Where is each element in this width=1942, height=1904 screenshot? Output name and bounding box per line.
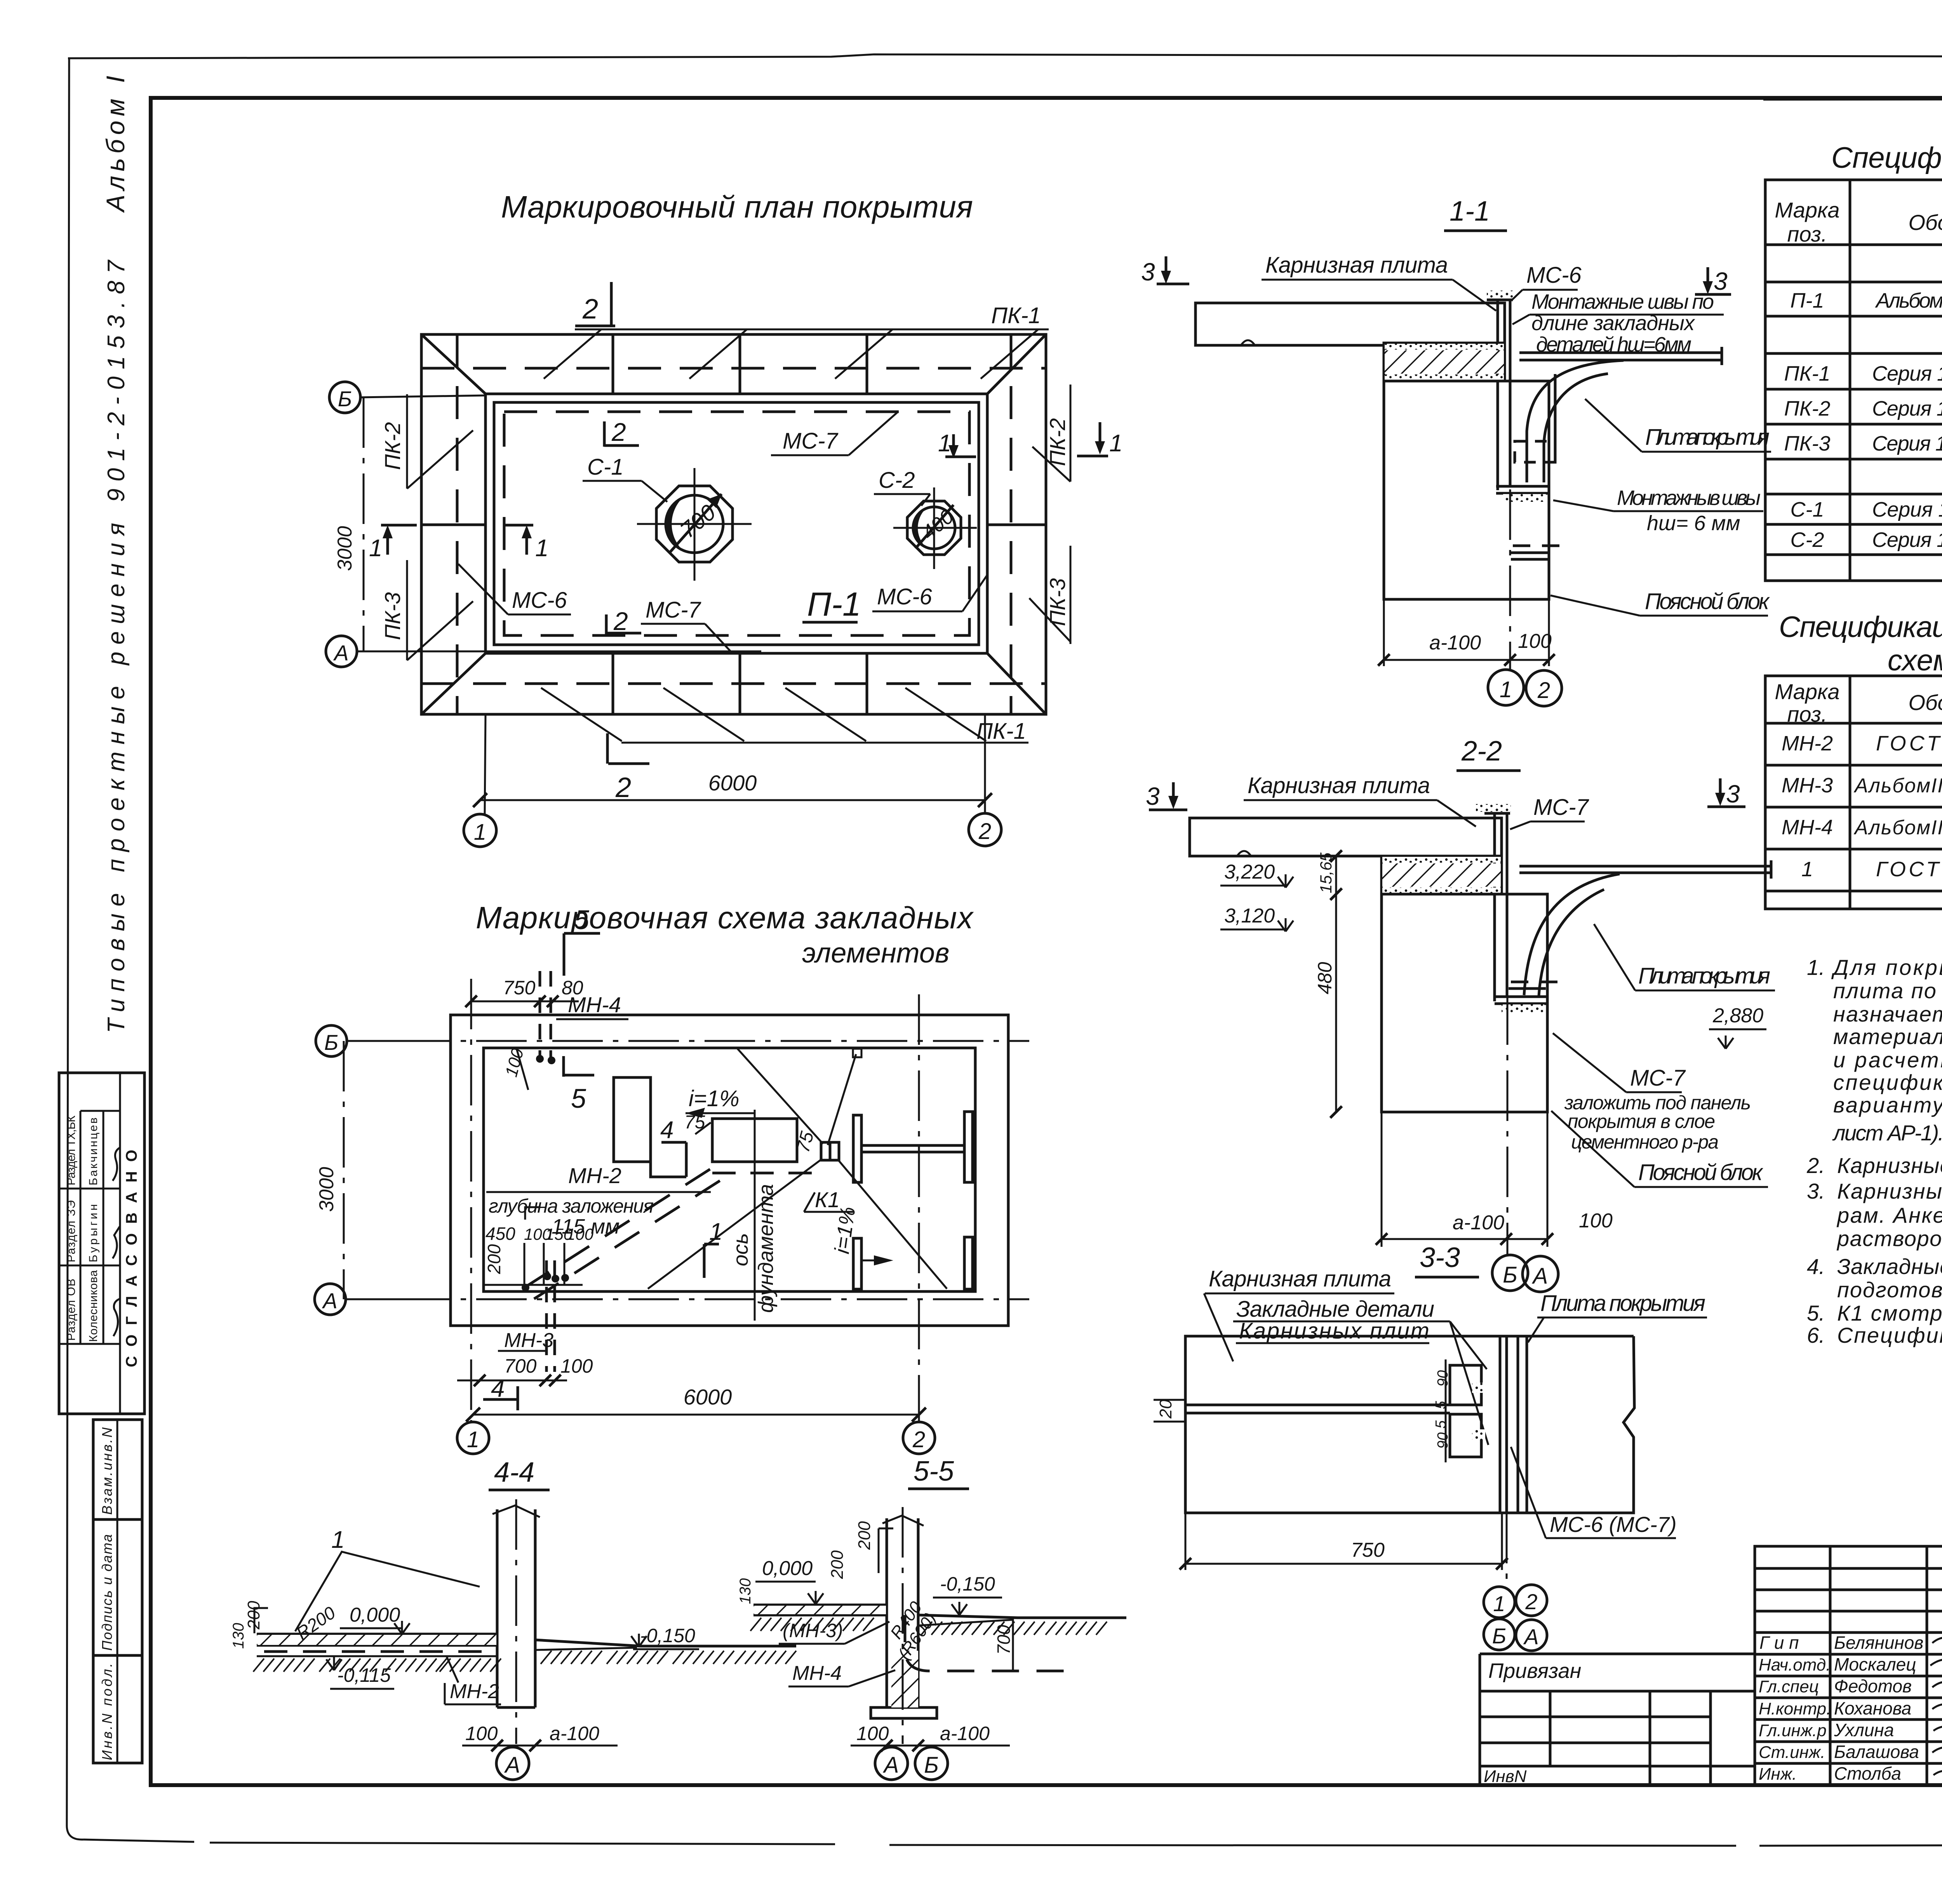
svg-text:3: 3 bbox=[1146, 782, 1160, 810]
svg-text:МС-7: МС-7 bbox=[1630, 1065, 1686, 1091]
svg-text:3: 3 bbox=[1714, 267, 1728, 295]
scheme inner wall rect bbox=[484, 1048, 975, 1291]
svg-text:hш= 6 мм: hш= 6 мм bbox=[1647, 512, 1740, 535]
svg-text:5-5: 5-5 bbox=[914, 1456, 954, 1487]
svg-text:Серия 1.494-24, вып. 1: Серия 1.494-24, вып. 1 bbox=[1872, 528, 1942, 552]
svg-text:ПК-1: ПК-1 bbox=[1784, 362, 1831, 385]
svg-text:покрытия в слое: покрытия в слое bbox=[1568, 1110, 1715, 1132]
5-5 column bbox=[886, 1518, 888, 1707]
axis circle 1 bbox=[457, 1422, 489, 1454]
svg-text:материала утеплителя, эксплуа: материала утеплителя, эксплуатационного … bbox=[1833, 1024, 1942, 1049]
svg-text:-0,150: -0,150 bbox=[940, 1573, 995, 1595]
svg-text:Раздел ЗЭ: Раздел ЗЭ bbox=[65, 1200, 78, 1262]
svg-text:4.: 4. bbox=[1807, 1254, 1825, 1279]
wall below bbox=[1382, 894, 1547, 1112]
axis circle B bbox=[316, 1025, 347, 1056]
svg-text:90: 90 bbox=[1435, 1370, 1451, 1387]
svg-text:-0,115: -0,115 bbox=[337, 1664, 391, 1686]
svg-text:поз.: поз. bbox=[1787, 702, 1827, 726]
bottom band plate joints bbox=[612, 653, 614, 714]
MN-4 embedded element dashed bbox=[539, 971, 541, 1058]
top band plate joints bbox=[612, 334, 614, 394]
svg-text:Г и п: Г и п bbox=[1759, 1632, 1799, 1653]
svg-text:130: 130 bbox=[737, 1578, 754, 1604]
signatures scribbles bbox=[113, 1148, 120, 1181]
svg-text:1.: 1. bbox=[1807, 955, 1825, 980]
svg-text:-0,150: -0,150 bbox=[640, 1625, 695, 1646]
svg-text:Карнизная плита: Карнизная плита bbox=[1209, 1266, 1391, 1291]
spec table 1 grid bbox=[1765, 180, 1942, 581]
svg-text:6000: 6000 bbox=[708, 771, 757, 795]
svg-text:С-2: С-2 bbox=[879, 468, 915, 493]
svg-text:a-100: a-100 bbox=[550, 1723, 599, 1744]
stakan S-1 octagon bbox=[656, 486, 733, 562]
svg-text:ПК-2: ПК-2 bbox=[380, 422, 405, 470]
svg-text:плита по серии 1.465.1-10/8: плита по серии 1.465.1-10/82, марка комп… bbox=[1833, 978, 1942, 1003]
svg-text:МН-4: МН-4 bbox=[792, 1662, 842, 1685]
2-2 cut mark 3 right bbox=[1719, 778, 1722, 802]
svg-text:МН-2: МН-2 bbox=[1782, 732, 1833, 755]
svg-text:элементов: элементов bbox=[802, 938, 949, 969]
svg-text:Марка: Марка bbox=[1775, 679, 1839, 704]
svg-text:А: А bbox=[1532, 1264, 1548, 1289]
svg-text:подготовки пола.: подготовки пола. bbox=[1837, 1277, 1942, 1302]
svg-text:20: 20 bbox=[1156, 1399, 1175, 1419]
spec table 2 grid bbox=[1765, 676, 1942, 909]
svg-text:А: А bbox=[883, 1753, 899, 1778]
svg-text:Б: Б bbox=[338, 386, 352, 411]
4-4 axis circle A bbox=[496, 1747, 529, 1780]
section mark 2 bottom bbox=[606, 733, 609, 764]
svg-text:2: 2 bbox=[611, 418, 626, 446]
svg-text:Раздел ТХ,БК: Раздел ТХ,БК bbox=[65, 1115, 78, 1185]
svg-text:Закладные изделия мн-3 - мн-: Закладные изделия мн-3 - мн-4 установить… bbox=[1837, 1254, 1942, 1279]
svg-text:3000: 3000 bbox=[334, 526, 356, 571]
svg-text:ГОСТ 18599-83: ГОСТ 18599-83 bbox=[1876, 732, 1942, 755]
axis 2 circle bbox=[969, 813, 1001, 846]
svg-text:Карнизная плита: Карнизная плита bbox=[1248, 773, 1430, 798]
embedded detail lower bbox=[1450, 1414, 1481, 1457]
svg-text:2-2: 2-2 bbox=[1461, 736, 1502, 767]
scheme outer wall rect bbox=[451, 1015, 1008, 1326]
1-1 axis circles 1 2 bbox=[1488, 670, 1524, 705]
5-5 axis bbox=[902, 1507, 904, 1744]
svg-text:480: 480 bbox=[1314, 962, 1336, 994]
svg-text:1-1: 1-1 bbox=[1450, 196, 1490, 227]
svg-text:А: А bbox=[1523, 1624, 1538, 1649]
svg-text:100: 100 bbox=[566, 1225, 594, 1243]
svg-text:2: 2 bbox=[912, 1427, 925, 1452]
svg-text:МС-6: МС-6 bbox=[512, 588, 567, 613]
cornice slab bbox=[1195, 303, 1505, 345]
MN-3 embedded element dashed bbox=[545, 1260, 548, 1372]
svg-text:3,220: 3,220 bbox=[1224, 861, 1275, 883]
axis A dash-dot bbox=[400, 1298, 1029, 1300]
svg-text:Столба: Столба bbox=[1834, 1763, 1901, 1784]
4-4 column axis bbox=[515, 1499, 517, 1744]
svg-text:АльбомII,лист-КЖИ.3.1: АльбомII,лист-КЖИ.3.1 bbox=[1853, 816, 1942, 839]
5-5 footing bbox=[871, 1707, 937, 1718]
svg-text:3000: 3000 bbox=[315, 1167, 338, 1212]
wall below bbox=[1384, 381, 1549, 599]
svg-text:3.: 3. bbox=[1807, 1179, 1825, 1203]
svg-text:100: 100 bbox=[1579, 1210, 1613, 1232]
svg-text:2: 2 bbox=[582, 294, 598, 325]
5-5 axis circles A B bbox=[875, 1747, 908, 1780]
section mark 5 inner bbox=[562, 1056, 565, 1077]
svg-text:Альбом II, лист КЖИ 1.1: Альбом II, лист КЖИ 1.1 bbox=[1875, 289, 1942, 312]
dim 3000 vertical bbox=[363, 397, 365, 651]
svg-text:100: 100 bbox=[856, 1723, 889, 1744]
svg-text:1: 1 bbox=[1109, 430, 1122, 457]
svg-text:Монтажныв швы: Монтажныв швы bbox=[1617, 486, 1761, 510]
svg-text:Монтажные швы по: Монтажные швы по bbox=[1531, 290, 1714, 313]
svg-text:1: 1 bbox=[467, 1427, 479, 1452]
section mark 1 left pair bbox=[381, 524, 417, 527]
1-1 cut mark 3 right bbox=[1707, 267, 1709, 291]
svg-text:3: 3 bbox=[1726, 780, 1740, 808]
svg-text:100: 100 bbox=[560, 1355, 593, 1377]
svg-text:Серия 1.138-3, вып..1: Серия 1.138-3, вып..1 bbox=[1872, 397, 1942, 420]
svg-text:Белянинов: Белянинов bbox=[1834, 1632, 1923, 1653]
cornice plate plan rect bbox=[1185, 1336, 1634, 1513]
svg-text:1: 1 bbox=[1493, 1591, 1505, 1616]
cornice slab bbox=[1190, 818, 1502, 856]
svg-text:Б: Б bbox=[1492, 1624, 1506, 1648]
1-1 wall axis bbox=[1509, 489, 1511, 670]
axis 2 dash-dot vertical bbox=[918, 994, 920, 1422]
svg-text:А: А bbox=[322, 1288, 337, 1313]
svg-text:Серия 1.138-3, вып.1: Серия 1.138-3, вып.1 bbox=[1872, 362, 1942, 385]
svg-text:МС-6 (МС-7): МС-6 (МС-7) bbox=[1550, 1512, 1677, 1537]
svg-text:Карнизная плита: Карнизная плита bbox=[1265, 252, 1448, 278]
roof plate right bbox=[1519, 865, 1771, 868]
svg-text:2: 2 bbox=[615, 772, 631, 803]
svg-text:ИнвN: ИнвN bbox=[1484, 1767, 1527, 1786]
svg-text:Балашова: Балашова bbox=[1834, 1742, 1919, 1762]
sheet outer border left edge bbox=[67, 58, 84, 1840]
svg-text:МН-2: МН-2 bbox=[568, 1163, 621, 1188]
svg-text:ПК-1: ПК-1 bbox=[991, 303, 1041, 328]
svg-text:поз.: поз. bbox=[1787, 222, 1827, 246]
svg-text:1: 1 bbox=[1801, 858, 1813, 881]
dashed hook under rect2 bbox=[712, 1172, 820, 1175]
svg-text:Инж.: Инж. bbox=[1759, 1765, 1797, 1784]
svg-text:2: 2 bbox=[613, 607, 628, 635]
svg-text:раствором толщиной 20 мм.: раствором толщиной 20 мм. bbox=[1836, 1226, 1942, 1251]
svg-text:a-100: a-100 bbox=[1429, 632, 1481, 654]
axis circle B bbox=[329, 382, 360, 413]
svg-text:Карнизных плит: Карнизных плит bbox=[1239, 1318, 1429, 1344]
svg-text:750: 750 bbox=[503, 977, 536, 999]
svg-text:1: 1 bbox=[938, 430, 951, 457]
svg-text:450: 450 bbox=[486, 1224, 515, 1244]
axis circle A bbox=[326, 636, 357, 667]
band centre dashed lines bbox=[421, 367, 1046, 370]
plan ring outer rect bbox=[421, 334, 1046, 714]
svg-text:4: 4 bbox=[491, 1374, 505, 1402]
sheet outer border bottom edge (broken scan line) bbox=[84, 1840, 194, 1842]
svg-text:Маркировочный план покрытия: Маркировочный план покрытия bbox=[501, 190, 973, 224]
svg-text:2: 2 bbox=[1525, 1589, 1537, 1614]
section mark 4 lower bbox=[517, 1386, 519, 1410]
svg-text:Нач.отд.: Нач.отд. bbox=[1759, 1655, 1831, 1674]
svg-text:глубина заложения: глубина заложения bbox=[489, 1195, 654, 1217]
svg-text:Плита покрытия: Плита покрытия bbox=[1645, 425, 1770, 450]
stakan S-2 octagon bbox=[907, 501, 961, 555]
svg-text:5: 5 bbox=[1433, 1401, 1449, 1409]
svg-text:0,000: 0,000 bbox=[762, 1557, 813, 1580]
svg-text:Б: Б bbox=[324, 1030, 338, 1055]
corner mitre diagonals bbox=[421, 334, 486, 394]
svg-text:Обозначение: Обозначение bbox=[1908, 690, 1942, 715]
svg-text:3,120: 3,120 bbox=[1224, 905, 1275, 927]
4-4 bottom dim bbox=[462, 1745, 618, 1747]
soil hatch left bbox=[253, 1659, 315, 1672]
svg-text:Плита покрытия: Плита покрытия bbox=[1540, 1291, 1705, 1316]
svg-text:МС-7: МС-7 bbox=[783, 428, 839, 454]
svg-text:рам. Анкера защищаются от: рам. Анкера защищаются от коррозии цемен… bbox=[1836, 1203, 1942, 1227]
dim 700 vertical bbox=[1012, 1618, 1014, 1671]
signature table bbox=[1755, 1546, 1942, 1785]
MS-6 bent plate bbox=[1497, 299, 1499, 490]
svg-text:Гл.инж.р: Гл.инж.р bbox=[1759, 1721, 1827, 1740]
svg-text:4-4: 4-4 bbox=[494, 1457, 534, 1488]
svg-text:С-1: С-1 bbox=[587, 454, 623, 480]
svg-text:(МН-3): (МН-3) bbox=[783, 1620, 843, 1641]
section mark 2 inner top bbox=[603, 421, 606, 447]
svg-text:МС-6: МС-6 bbox=[877, 584, 933, 609]
equipment rect 1 bbox=[614, 1077, 651, 1162]
MN-2 tubes thick dashed bbox=[524, 1169, 711, 1288]
svg-text:МН-2: МН-2 bbox=[450, 1680, 499, 1703]
svg-text:ПК-3: ПК-3 bbox=[1784, 432, 1831, 455]
inventory strip table bbox=[93, 1420, 142, 1763]
svg-text:С-2: С-2 bbox=[1790, 528, 1824, 552]
plan inner opening double rect bbox=[486, 394, 987, 653]
axis 1 circle bbox=[464, 814, 496, 847]
3-3 joint axis bbox=[1506, 1513, 1508, 1587]
svg-text:1: 1 bbox=[1500, 677, 1512, 702]
svg-text:Серия 1.494-24, вып.1: Серия 1.494-24, вып.1 bbox=[1872, 498, 1942, 521]
1-1 dims bbox=[1383, 599, 1385, 666]
slope diagonals to drain bbox=[737, 1048, 823, 1144]
svg-text:варианту, принятому в типово: варианту, принятому в типовом проекте (п… bbox=[1833, 1093, 1942, 1117]
svg-text:МН-4: МН-4 bbox=[568, 992, 621, 1017]
svg-text:Федотов: Федотов bbox=[1834, 1676, 1912, 1696]
svg-text:назначается при привязке пр: назначается при привязке проекта, и зави… bbox=[1833, 1002, 1942, 1026]
svg-text:К1 смотреть по чертежам пр: К1 смотреть по чертежам проекта ТХ и ВК. bbox=[1837, 1301, 1942, 1325]
axis B dash-dot bbox=[400, 1040, 1029, 1042]
svg-text:Поясной блок: Поясной блок bbox=[1645, 589, 1770, 614]
svg-text:200: 200 bbox=[484, 1244, 504, 1274]
svg-text:МН-4: МН-4 bbox=[1782, 816, 1833, 839]
inner edge double line bbox=[1185, 1404, 1450, 1406]
axis circle A bbox=[315, 1284, 346, 1315]
svg-text:i=1%: i=1% bbox=[689, 1086, 740, 1111]
plate P-1 dashed outline bbox=[504, 412, 969, 635]
svg-text:А: А bbox=[504, 1753, 520, 1778]
svg-text:Коханова: Коханова bbox=[1834, 1698, 1911, 1718]
svg-text:750: 750 bbox=[1351, 1539, 1385, 1561]
svg-text:2,880: 2,880 bbox=[1712, 1004, 1763, 1027]
svg-text:Серия 1.138-3, вып. 1: Серия 1.138-3, вып. 1 bbox=[1872, 432, 1942, 455]
svg-text:Спецификация элементов покры: Спецификация элементов покрытия bbox=[1831, 141, 1942, 174]
svg-text:1: 1 bbox=[709, 1218, 722, 1245]
svg-text:ГОСТ 10704-76*: ГОСТ 10704-76* bbox=[1876, 858, 1942, 881]
svg-text:1: 1 bbox=[369, 535, 382, 562]
embedded detail upper bbox=[1450, 1365, 1481, 1405]
dim 6000 line bbox=[480, 799, 985, 801]
svg-text:Гл.спец: Гл.спец bbox=[1759, 1677, 1819, 1696]
svg-text:6000: 6000 bbox=[684, 1385, 732, 1409]
4-4 column bbox=[496, 1509, 499, 1707]
svg-text:Б: Б bbox=[1503, 1262, 1517, 1288]
svg-text:0,000: 0,000 bbox=[350, 1604, 400, 1626]
svg-text:А: А bbox=[333, 640, 348, 665]
svg-text:и расчетных параметров нару: и расчетных параметров наружного воздуха… bbox=[1833, 1048, 1942, 1072]
svg-text:6.: 6. bbox=[1807, 1323, 1825, 1347]
dim 3000 vertical bbox=[343, 1041, 345, 1299]
svg-text:фундамента: фундамента bbox=[754, 1184, 778, 1313]
svg-text:ПК-2: ПК-2 bbox=[1784, 397, 1831, 420]
2-2 wall axis bbox=[1507, 994, 1509, 1257]
svg-text:1: 1 bbox=[474, 820, 486, 845]
svg-text:Привязан: Привязан bbox=[1488, 1659, 1581, 1683]
section mark 2 top bbox=[610, 282, 613, 327]
svg-text:ось: ось bbox=[729, 1233, 752, 1266]
4-4 floor slab bbox=[257, 1633, 497, 1636]
svg-text:100: 100 bbox=[465, 1723, 498, 1744]
svg-text:Плита покрытия: Плита покрытия bbox=[1638, 963, 1770, 989]
svg-text:Поясной блок: Поясной блок bbox=[1638, 1160, 1764, 1185]
MS-7 bent plate bbox=[1493, 813, 1496, 1001]
axis circle 2 bbox=[903, 1422, 935, 1454]
svg-text:Ст.инж.: Ст.инж. bbox=[1759, 1743, 1825, 1762]
svg-text:схемам закладных изделий: схемам закладных изделий bbox=[1888, 644, 1942, 677]
svg-text:3-3: 3-3 bbox=[1420, 1242, 1460, 1273]
svg-text:200: 200 bbox=[855, 1521, 874, 1550]
svg-text:Карнизные плиты крепятся эл: Карнизные плиты крепятся электродуговой … bbox=[1837, 1179, 1942, 1203]
svg-text:Б: Б bbox=[924, 1753, 939, 1778]
svg-text:Н.контр.: Н.контр. bbox=[1759, 1699, 1831, 1718]
svg-text:лист АР-1).: лист АР-1). bbox=[1832, 1121, 1942, 1145]
svg-text:Карнизные плиты укладываются: Карнизные плиты укладываются на цементно… bbox=[1837, 1153, 1942, 1178]
svg-text:ПК-2: ПК-2 bbox=[1045, 418, 1070, 466]
svg-text:5: 5 bbox=[571, 1083, 586, 1114]
svg-text:Обозначение: Обозначение bbox=[1908, 210, 1942, 235]
svg-text:Бакчинцев: Бакчинцев bbox=[87, 1117, 100, 1185]
insulation layer bbox=[1382, 856, 1502, 894]
svg-text:Спецификация элементов к ма: Спецификация элементов к маркировочным bbox=[1779, 611, 1942, 644]
dim 750 bbox=[1185, 1513, 1187, 1570]
svg-text:200: 200 bbox=[828, 1550, 847, 1579]
5-5 floor slab left bbox=[753, 1604, 887, 1606]
2-2 dims bbox=[1381, 1112, 1383, 1247]
svg-text:П-1: П-1 bbox=[1790, 289, 1824, 312]
svg-text:5: 5 bbox=[1433, 1420, 1449, 1429]
svg-text:МН-3: МН-3 bbox=[1782, 774, 1833, 797]
svg-text:Для покрытия применена комп: Для покрытия применена комплексная желез… bbox=[1831, 955, 1942, 980]
dim 750 80 bbox=[471, 1001, 579, 1002]
svg-text:Колесникова: Колесникова bbox=[87, 1270, 100, 1342]
svg-text:Москалец: Москалец bbox=[1834, 1654, 1916, 1674]
svg-text:АльбомII,лист-КЖИ.3.1: АльбомII,лист-КЖИ.3.1 bbox=[1853, 774, 1942, 797]
foundation I-beam bbox=[853, 1115, 861, 1182]
svg-text:700: 700 bbox=[504, 1355, 537, 1377]
svg-text:ПК-3: ПК-3 bbox=[380, 592, 405, 640]
privyazan block bbox=[1480, 1653, 1755, 1655]
5-5 bottom dim bbox=[851, 1745, 1010, 1747]
roof plate right bbox=[1519, 352, 1722, 354]
axis 1 dash-dot vertical bbox=[470, 979, 472, 1422]
svg-text:Подпись и дата: Подпись и дата bbox=[99, 1534, 115, 1651]
section mark 2 inner bbox=[605, 614, 608, 635]
soglasovano stamp table bbox=[59, 1073, 144, 1414]
equipment rect 2 bbox=[712, 1119, 797, 1162]
svg-text:МС-7: МС-7 bbox=[646, 597, 702, 623]
svg-text:4: 4 bbox=[660, 1117, 673, 1143]
svg-text:МН-3: МН-3 bbox=[504, 1329, 553, 1352]
svg-text:Раздел ОВ: Раздел ОВ bbox=[65, 1279, 78, 1341]
svg-text:1: 1 bbox=[331, 1526, 345, 1553]
svg-text:100: 100 bbox=[1518, 630, 1552, 653]
svg-text:3: 3 bbox=[1141, 258, 1155, 286]
joint lines bbox=[1499, 1336, 1502, 1513]
svg-text:5.: 5. bbox=[1807, 1301, 1825, 1325]
svg-text:700: 700 bbox=[994, 1625, 1014, 1655]
svg-text:a-100: a-100 bbox=[1453, 1211, 1504, 1234]
side band joints bbox=[421, 524, 486, 526]
MN-4 dashed element bbox=[905, 1615, 1066, 1671]
5-5 ground right bbox=[918, 1615, 1126, 1618]
svg-text:Марка: Марка bbox=[1775, 198, 1839, 222]
svg-text:С-1: С-1 bbox=[1790, 498, 1824, 521]
sheet outer border top edge bbox=[68, 54, 1942, 58]
svg-text:2: 2 bbox=[1537, 678, 1550, 703]
svg-text:Маркировочная схема закладны: Маркировочная схема закладных bbox=[476, 900, 974, 935]
MN-2 tube dashed in slab bbox=[264, 1650, 493, 1653]
dim 6000 line bbox=[473, 1414, 919, 1416]
svg-text:130: 130 bbox=[230, 1623, 247, 1649]
label glubina zalozheniya bbox=[486, 1191, 711, 1193]
svg-text:Ухлина: Ухлина bbox=[1834, 1720, 1894, 1740]
4-4 ground right wedge bbox=[535, 1640, 796, 1646]
svg-text:1: 1 bbox=[535, 535, 548, 562]
svg-text:МС-7: МС-7 bbox=[1533, 795, 1590, 820]
2-2 axis circles B A bbox=[1492, 1255, 1528, 1291]
insulation layer bbox=[1384, 343, 1505, 381]
svg-text:90: 90 bbox=[1435, 1432, 1451, 1449]
svg-text:5: 5 bbox=[574, 905, 590, 935]
3-3 axis circles 1 2 B A bbox=[1484, 1587, 1515, 1618]
svg-text:спецификации марка плиты со: спецификации марка плиты соответствует о… bbox=[1833, 1070, 1942, 1095]
svg-text:a-100: a-100 bbox=[940, 1723, 990, 1744]
drain K1 square bbox=[821, 1142, 839, 1160]
svg-text:2.: 2. bbox=[1806, 1153, 1825, 1178]
svg-text:2: 2 bbox=[978, 819, 991, 844]
svg-text:П-1: П-1 bbox=[807, 586, 861, 623]
svg-text:МС-6: МС-6 bbox=[1526, 263, 1582, 288]
svg-text:С О Г Л А С О В А Н О: С О Г Л А С О В А Н О bbox=[123, 1150, 140, 1367]
